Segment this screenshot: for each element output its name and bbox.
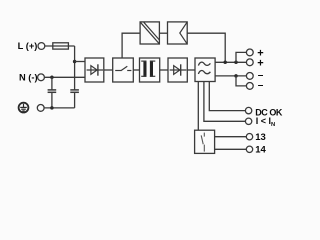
svg-text:L (+): L (+): [18, 41, 38, 51]
wire U1-U2: [104, 69, 113, 71]
svg-text:13: 13: [255, 132, 266, 143]
terminal 14: [246, 146, 252, 152]
terminal +2: [246, 59, 253, 66]
earth symbol: [19, 103, 29, 113]
fuse F1: [53, 43, 69, 49]
relay contact: [201, 133, 204, 152]
node L-branch: [73, 60, 77, 64]
terminal PE: [37, 105, 44, 112]
wire U3-U4: [160, 69, 168, 71]
wire L vertical down: [74, 46, 76, 90]
boost block U6: [140, 22, 159, 44]
svg-text:14: 14: [255, 145, 266, 156]
wire top branch up from U2: [122, 33, 140, 58]
node plus-split: [234, 61, 238, 65]
terminal I<In: [245, 118, 251, 124]
rectifier block U1: [85, 58, 104, 82]
svg-text:I < IN: I < IN: [256, 116, 275, 128]
wire U2-U3: [133, 69, 139, 71]
node N-cap: [50, 76, 54, 80]
regulator block U5: [195, 58, 215, 82]
node top-branch join: [223, 61, 227, 65]
limiter block U7: [168, 22, 188, 44]
wire negative output: [215, 75, 246, 77]
terminal -2: [246, 83, 253, 90]
ground wire: [44, 107, 75, 109]
wire U4-U5: [187, 69, 195, 71]
terminal DC OK: [245, 107, 251, 113]
terminal +1: [246, 49, 253, 56]
wire N to rectifier input 2: [44, 76, 85, 78]
wire DC OK: [209, 82, 245, 111]
terminal 13: [246, 134, 252, 140]
wire positive output: [215, 61, 246, 63]
switch contact: [115, 66, 131, 71]
diode D2: [170, 64, 187, 75]
wire I<In: [204, 82, 246, 122]
terminal N: [38, 74, 45, 81]
sine symbol upper: [198, 62, 210, 65]
node ground-cap: [50, 106, 54, 110]
wire contact 14: [215, 148, 247, 150]
diode D1: [87, 64, 103, 75]
relay block K1: [195, 130, 215, 153]
chevron symbol: [180, 22, 187, 43]
output rectifier block U4: [168, 58, 187, 82]
sine symbol lower: [198, 71, 210, 74]
wire contact 13: [215, 136, 247, 138]
svg-text:N (-): N (-): [19, 73, 38, 83]
double diagonal: [140, 22, 159, 43]
transformer block U3: [140, 58, 160, 82]
svg-text:–: –: [258, 80, 264, 91]
wire to relay: [197, 82, 199, 131]
wire top branch to output: [187, 33, 225, 62]
wire L to fuse: [45, 45, 75, 47]
wire to upper plus terminal: [236, 52, 246, 62]
terminal L: [38, 43, 45, 50]
wire U6-U7: [159, 32, 167, 34]
capacitor C2: [70, 89, 79, 91]
wire to lower minus terminal: [236, 76, 246, 86]
wire to rectifier input 1: [75, 61, 85, 63]
terminal -1: [246, 73, 253, 80]
capacitor C1: [51, 77, 53, 89]
transformer symbol T1: [141, 61, 155, 77]
switch block U2: [113, 58, 134, 82]
svg-text:+: +: [257, 57, 263, 69]
node minus-split: [234, 74, 238, 78]
